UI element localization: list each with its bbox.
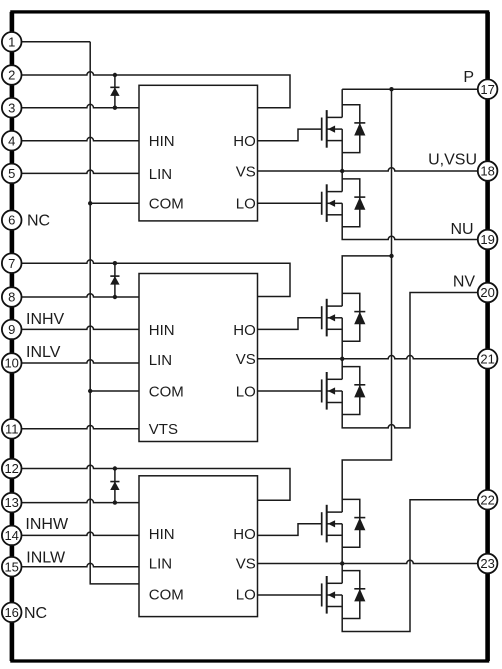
wire P rail from Q1 drain to pin17 bbox=[342, 88, 478, 90]
svg-text:16: 16 bbox=[4, 605, 18, 620]
svg-text:VS: VS bbox=[236, 351, 256, 368]
wire Q3 drain branch from P feed bbox=[342, 256, 391, 306]
svg-text:LO: LO bbox=[236, 383, 256, 400]
transistor Q5 high-side W bbox=[322, 505, 343, 543]
wire COM bus vertical with corner into U3 COM bbox=[90, 42, 139, 584]
svg-text:VTS: VTS bbox=[149, 421, 178, 438]
package outline right edge thick segment bbox=[485, 12, 490, 661]
wire pin1 to COM bus corner bbox=[21, 41, 90, 43]
svg-text:10: 10 bbox=[4, 356, 18, 371]
pin 23 terminal bbox=[478, 554, 498, 574]
wire Q5 source vertical to VSW rail bbox=[341, 524, 343, 564]
pin 7 terminal bbox=[2, 253, 22, 273]
wire pin11 to U2 VTS with hop bbox=[21, 426, 139, 429]
svg-text:COM: COM bbox=[149, 587, 184, 604]
wire Q4 drain vertical bbox=[341, 359, 343, 380]
pin 19 terminal bbox=[478, 230, 498, 250]
svg-text:VS: VS bbox=[236, 555, 256, 572]
pin 8 terminal bbox=[2, 287, 22, 307]
junction dot COM2 on bus bbox=[88, 389, 92, 393]
junction dot COM1 on bus bbox=[88, 201, 92, 205]
package outline left edge thick segment bbox=[10, 12, 15, 661]
wire pin13 to U3 VCC input with hop bbox=[21, 499, 139, 502]
wire U1 LO to Q2 gate bbox=[258, 202, 322, 204]
svg-text:19: 19 bbox=[480, 232, 494, 247]
body diode of Q5 bbox=[342, 499, 365, 547]
transistor Q2 low-side U bbox=[322, 184, 343, 222]
pin 15 terminal bbox=[2, 557, 22, 577]
junction dot P feed to Q3 drain branch bbox=[389, 254, 393, 258]
pin 1 terminal bbox=[2, 32, 22, 52]
wire pin7 VB2 with hop over bus, wrap around U2 to right side bbox=[21, 260, 290, 297]
pin 21 terminal bbox=[478, 349, 498, 369]
svg-text:LO: LO bbox=[236, 196, 256, 213]
body diode of Q6 bbox=[342, 571, 365, 619]
wire U3 LO to Q6 gate bbox=[258, 594, 322, 596]
svg-text:18: 18 bbox=[480, 164, 494, 179]
svg-text:COM: COM bbox=[149, 196, 184, 213]
wire Q3 source vertical to VSV rail bbox=[341, 318, 343, 359]
svg-text:20: 20 bbox=[480, 285, 494, 300]
wire Q6 drain vertical bbox=[341, 564, 343, 584]
wire pin15 INLW to U3 LIN with hop bbox=[21, 563, 139, 566]
svg-text:12: 12 bbox=[4, 461, 18, 476]
wire Q1 source vertical to VS rail bbox=[341, 129, 343, 171]
pin 12 terminal bbox=[2, 459, 22, 479]
transistor Q1 high-side U bbox=[322, 110, 343, 148]
junction dot VSV rail at Q3 source / Q4 drain bbox=[340, 357, 344, 361]
svg-text:LIN: LIN bbox=[149, 555, 172, 572]
svg-text:VS: VS bbox=[236, 163, 256, 180]
svg-text:5: 5 bbox=[8, 166, 15, 181]
wire pin3 to U1 VCC input with hop bbox=[21, 104, 139, 107]
wire Q4 source to NV pin20 with hop over P feed bbox=[342, 293, 478, 428]
svg-text:22: 22 bbox=[480, 492, 494, 507]
transistor Q4 low-side V bbox=[322, 372, 343, 410]
pin 20 terminal bbox=[478, 283, 498, 303]
pin 3 terminal bbox=[2, 98, 22, 118]
wire U1 COM to bus bbox=[90, 202, 139, 204]
svg-text:9: 9 bbox=[8, 322, 15, 337]
wire pin5 to U1 LIN with hop bbox=[21, 170, 139, 173]
wire pin14 INHW to U3 HIN with hop bbox=[21, 532, 139, 535]
wire pin2 VB1 with hop over bus, wrap around U1 to right side bbox=[21, 72, 290, 108]
pin 16 terminal bbox=[2, 603, 22, 623]
wire Q2 source down and NU rail to pin19 with hop over P feed bbox=[342, 203, 478, 239]
wire VSW rail from U3 VS to pin23 with hop over NW line bbox=[258, 560, 478, 563]
wire U2 LO to Q4 gate bbox=[258, 390, 322, 392]
wire U1 HO to Q1 gate with jog bbox=[258, 129, 322, 141]
svg-text:INHV: INHV bbox=[26, 311, 65, 328]
svg-text:NC: NC bbox=[24, 605, 47, 622]
svg-text:LO: LO bbox=[236, 587, 256, 604]
wire U2 COM to bus bbox=[90, 390, 139, 392]
pin 17 terminal bbox=[478, 79, 498, 99]
svg-text:3: 3 bbox=[8, 100, 15, 115]
transistor Q6 low-side W bbox=[322, 576, 343, 614]
pin 22 terminal bbox=[478, 490, 498, 510]
svg-text:15: 15 bbox=[4, 559, 18, 574]
svg-text:1: 1 bbox=[8, 34, 15, 49]
pin 18 terminal bbox=[478, 161, 498, 181]
body diode of Q3 bbox=[342, 293, 365, 341]
pin 5 terminal bbox=[2, 164, 22, 184]
svg-text:NC: NC bbox=[27, 212, 50, 229]
svg-text:11: 11 bbox=[5, 421, 19, 436]
body diode of Q4 bbox=[342, 367, 365, 415]
svg-text:HO: HO bbox=[233, 133, 256, 150]
body diode of Q1 bbox=[342, 105, 365, 153]
bootstrap diode D1 bbox=[110, 73, 119, 110]
svg-text:INLW: INLW bbox=[26, 550, 66, 567]
svg-text:17: 17 bbox=[480, 82, 494, 97]
junction dot VSW rail at Q5 source / Q6 drain bbox=[340, 561, 344, 565]
svg-text:13: 13 bbox=[4, 495, 18, 510]
bootstrap diode D3 bbox=[110, 466, 119, 505]
svg-text:8: 8 bbox=[8, 290, 15, 305]
svg-text:7: 7 bbox=[8, 256, 15, 271]
svg-text:COM: COM bbox=[149, 383, 184, 400]
svg-text:21: 21 bbox=[480, 351, 494, 366]
wire pin4 to U1 HIN with hop bbox=[21, 137, 139, 140]
svg-text:4: 4 bbox=[8, 133, 15, 148]
svg-text:HIN: HIN bbox=[149, 526, 175, 543]
wire Q6 source to pin22 bbox=[342, 500, 478, 632]
wire U3 HO to Q5 gate with jog bbox=[258, 524, 322, 536]
svg-text:23: 23 bbox=[480, 556, 494, 571]
svg-text:LIN: LIN bbox=[149, 166, 172, 183]
wire VSV rail from U2 VS to pin21 with hops over P feed and NV line bbox=[258, 356, 478, 359]
driver block U2 outline bbox=[139, 274, 258, 442]
wire pin12 VB3 with hop over bus, wrap around U3 to right side bbox=[21, 465, 290, 500]
pin 13 terminal bbox=[2, 493, 22, 513]
junction dot P rail to P feed bbox=[389, 87, 393, 91]
wire pin9 INHV to U2 HIN with hop bbox=[21, 326, 139, 329]
pin 4 terminal bbox=[2, 131, 22, 151]
driver block U3 outline bbox=[139, 476, 258, 617]
wire U,VSU rail from U1 VS to pin18 with hop over P feed bbox=[258, 168, 478, 171]
svg-text:NV: NV bbox=[453, 273, 476, 290]
svg-text:HIN: HIN bbox=[149, 322, 175, 339]
svg-text:14: 14 bbox=[4, 528, 18, 543]
svg-text:P: P bbox=[463, 69, 474, 86]
svg-text:INHW: INHW bbox=[25, 516, 69, 533]
pin 10 terminal bbox=[2, 353, 22, 373]
wire U2 HO to Q3 gate with jog bbox=[258, 318, 322, 330]
transistor Q3 high-side V bbox=[322, 299, 343, 337]
svg-text:HO: HO bbox=[233, 526, 256, 543]
svg-text:LIN: LIN bbox=[149, 352, 172, 369]
wire Q2 drain vertical bbox=[341, 171, 343, 192]
svg-text:HIN: HIN bbox=[149, 133, 175, 150]
wire pin8 to U2 VCC input with hop bbox=[21, 294, 139, 297]
svg-text:2: 2 bbox=[8, 68, 15, 83]
svg-text:NU: NU bbox=[450, 221, 473, 238]
svg-text:HO: HO bbox=[233, 322, 256, 339]
junction dot VSU rail at Q1 source / Q2 drain bbox=[340, 169, 344, 173]
svg-text:INLV: INLV bbox=[26, 344, 61, 361]
wire Q1 drain vertical bbox=[341, 89, 343, 117]
svg-text:U,VSU: U,VSU bbox=[428, 151, 477, 168]
pin 14 terminal bbox=[2, 526, 22, 546]
bootstrap diode D2 bbox=[110, 261, 119, 299]
svg-text:6: 6 bbox=[8, 213, 15, 228]
pin 6 terminal bbox=[2, 210, 22, 230]
body diode of Q2 bbox=[342, 179, 365, 227]
pin 11 terminal bbox=[2, 419, 22, 439]
driver block U1 outline bbox=[139, 85, 258, 221]
wire pin10 INLV to U2 LIN with hop bbox=[21, 360, 139, 363]
pin 2 terminal bbox=[2, 65, 22, 85]
wire P feed vertical from P rail down to W phase bbox=[342, 89, 391, 512]
pin 9 terminal bbox=[2, 320, 22, 340]
